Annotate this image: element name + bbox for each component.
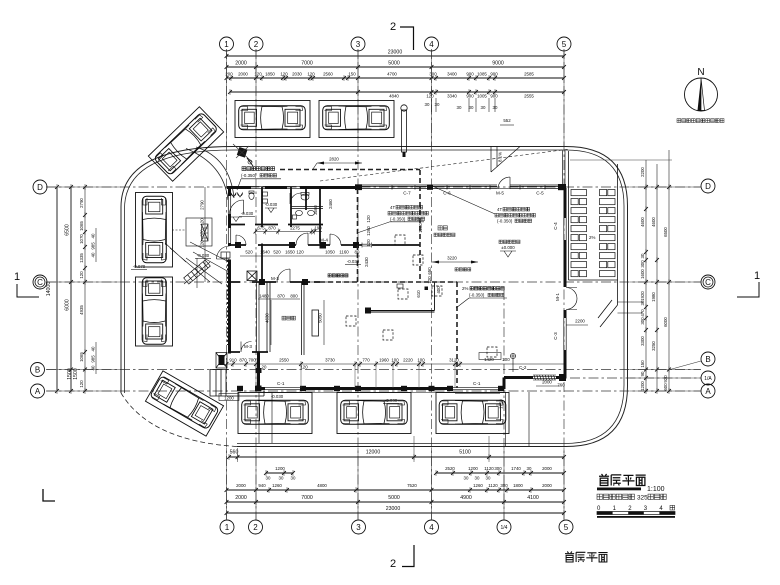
svg-text:2275: 2275 — [290, 226, 300, 231]
dim 1420 box — [479, 353, 510, 363]
toilet fixtures top-left — [231, 191, 309, 203]
north arrow — [677, 67, 724, 123]
svg-text:1640: 1640 — [260, 250, 270, 255]
annotation tiny drain — [328, 274, 348, 277]
svg-text:2000: 2000 — [542, 466, 552, 471]
svg-text:1335: 1335 — [79, 253, 84, 263]
grid line 1/4 vertical — [503, 290, 505, 520]
svg-text:3340: 3340 — [447, 94, 457, 99]
svg-text:870: 870 — [277, 294, 285, 299]
svg-text:1120: 1120 — [484, 466, 494, 471]
grid line C horizontal — [46, 281, 701, 283]
svg-text:3250: 3250 — [651, 341, 656, 351]
svg-text:120: 120 — [79, 380, 84, 388]
svg-text:±0.000: ±0.000 — [501, 245, 515, 250]
svg-text:120: 120 — [280, 72, 288, 77]
right dimension column outer — [663, 150, 671, 394]
entry side planter — [216, 353, 227, 369]
interior dim row verticals — [256, 364, 455, 388]
section marker 1 bottom-left corner — [43, 489, 55, 501]
svg-text:2460: 2460 — [328, 199, 333, 209]
svg-text:1:100: 1:100 — [647, 486, 665, 493]
interior partition x268 double — [267, 282, 270, 352]
svg-text:1070: 1070 — [79, 234, 84, 244]
svg-text:C-7: C-7 — [403, 191, 411, 196]
level mark -0.030 mid — [345, 259, 361, 265]
duct shaft rect — [312, 310, 319, 336]
svg-text:2555: 2555 — [524, 94, 534, 99]
svg-text:1480: 1480 — [259, 294, 269, 299]
door arc room x296 — [296, 233, 308, 245]
svg-text:120: 120 — [307, 72, 315, 77]
grid bubble C left — [33, 275, 47, 289]
svg-text:C-3: C-3 — [553, 332, 558, 340]
car top A — [239, 106, 306, 130]
left dimension column 6500 6000 1500 — [65, 184, 80, 394]
interior dim row y229 — [254, 226, 323, 235]
svg-text:910: 910 — [229, 358, 237, 363]
level mark -0.070 road — [131, 264, 147, 270]
svg-text:1960: 1960 — [379, 358, 389, 363]
svg-text:N: N — [697, 67, 704, 78]
level mark -0.030 left — [239, 211, 255, 217]
bottom dimension row D — [225, 495, 566, 505]
door arc room4 — [290, 193, 301, 204]
SE corner column block — [559, 374, 566, 381]
dim 2000 right stall — [536, 380, 560, 387]
svg-text:2000: 2000 — [542, 483, 552, 488]
bottom dimension extension lines — [227, 448, 565, 519]
svg-text:1085: 1085 — [477, 72, 487, 77]
interior wall vertical x262 — [261, 187, 263, 227]
svg-text:30: 30 — [640, 300, 645, 305]
svg-text:800: 800 — [290, 294, 298, 299]
parking stall left B — [136, 277, 173, 346]
svg-text:700: 700 — [248, 358, 256, 363]
svg-text:B: B — [35, 365, 40, 374]
svg-text:40: 40 — [91, 346, 96, 351]
svg-text:-0.030: -0.030 — [347, 259, 360, 264]
svg-text:23000: 23000 — [388, 50, 403, 56]
interior wall upper right y311 — [368, 282, 435, 312]
svg-text:600: 600 — [663, 383, 668, 391]
svg-text:760: 760 — [557, 383, 565, 388]
interior wall vertical x291 — [290, 187, 292, 227]
benchmark symbol — [510, 353, 515, 372]
svg-text:5000: 5000 — [388, 61, 400, 67]
svg-text:560: 560 — [230, 450, 239, 456]
svg-text:M-3: M-3 — [271, 276, 279, 281]
svg-text:900: 900 — [466, 94, 474, 99]
svg-text:3220: 3220 — [447, 256, 457, 261]
top band door sill M-5 — [497, 188, 510, 190]
svg-text:2: 2 — [390, 21, 396, 33]
car bottom C — [439, 400, 506, 424]
svg-text:2200: 2200 — [640, 167, 645, 177]
svg-text:2430: 2430 — [364, 257, 369, 267]
svg-text:870: 870 — [268, 226, 276, 231]
svg-text:2000: 2000 — [235, 61, 247, 67]
svg-text:120: 120 — [300, 365, 308, 370]
svg-text:1200: 1200 — [275, 466, 285, 471]
window C-3 right wall — [564, 318, 566, 350]
stair block with X — [247, 271, 257, 281]
flag pole detail — [401, 105, 407, 157]
svg-text:6500: 6500 — [65, 224, 71, 236]
svg-text:1200: 1200 — [468, 466, 478, 471]
parking stall top B — [319, 101, 394, 138]
svg-text:C-5: C-5 — [536, 191, 544, 196]
interior wall y245 — [230, 244, 421, 246]
svg-text:1260: 1260 — [272, 483, 282, 488]
svg-text:3660: 3660 — [313, 205, 318, 215]
top band window labels — [403, 191, 544, 196]
top dimension 30 pairs — [425, 98, 498, 112]
bottom dimension row 30s — [266, 476, 491, 481]
door top-left arc — [230, 200, 244, 214]
svg-text:4T: 4T — [390, 205, 395, 210]
svg-text:325: 325 — [637, 495, 648, 502]
building exterior wall left — [228, 186, 231, 354]
svg-text:4840: 4840 — [389, 94, 399, 99]
door arc corridor x236 — [236, 235, 246, 245]
svg-text:30: 30 — [435, 102, 440, 107]
svg-text:120: 120 — [426, 94, 434, 99]
ramp leader lines — [165, 243, 210, 288]
grid bubble B right leader — [670, 361, 701, 370]
car bottom A — [242, 400, 309, 424]
canopy dashed line above top wall — [280, 169, 420, 171]
svg-text:1260: 1260 — [473, 483, 483, 488]
svg-text:1650: 1650 — [285, 250, 295, 255]
svg-text:3300: 3300 — [640, 336, 645, 346]
svg-text:C-1: C-1 — [277, 381, 285, 386]
interior dim row y254 — [240, 250, 360, 257]
road outer boundary — [121, 147, 628, 447]
svg-text:C-4: C-4 — [553, 222, 558, 230]
entry porch — [210, 370, 264, 397]
svg-text:7000: 7000 — [301, 495, 313, 501]
svg-text:400: 400 — [436, 286, 441, 294]
interior wall vertical x320 — [319, 187, 321, 244]
svg-text:5: 5 — [564, 523, 569, 532]
svg-text:2: 2 — [253, 523, 258, 532]
canopy dashed line y282 — [320, 281, 457, 283]
right dimension column inner — [640, 160, 648, 394]
grid bubble 4 bottom — [425, 520, 439, 534]
svg-text:C-1: C-1 — [473, 381, 481, 386]
svg-text:650: 650 — [427, 267, 432, 275]
svg-text:520: 520 — [273, 250, 281, 255]
svg-text:2790: 2790 — [79, 198, 84, 208]
interior wall y245 column blocks — [235, 242, 359, 249]
level triangle shower room — [265, 208, 277, 213]
svg-text:1420: 1420 — [484, 357, 494, 362]
car rotated top-left — [154, 112, 219, 176]
svg-text:30: 30 — [464, 476, 469, 481]
svg-text:4600: 4600 — [651, 217, 656, 227]
dim 2200 interior right — [566, 319, 588, 326]
svg-text:120: 120 — [296, 250, 304, 255]
svg-text:920: 920 — [663, 375, 668, 383]
grid line 5 vertical — [563, 49, 565, 520]
grid line 1 vertical — [226, 49, 228, 520]
svg-text:20: 20 — [262, 365, 267, 370]
svg-text:552: 552 — [503, 118, 511, 123]
right dimension extension lines — [570, 160, 700, 391]
hatch walkway border — [569, 151, 618, 327]
title area text — [597, 494, 666, 501]
interior partition x306 toilet — [305, 187, 307, 210]
interior dim row y361 — [225, 358, 565, 370]
door entry porch arc — [241, 342, 252, 353]
svg-text:1: 1 — [224, 40, 229, 49]
walkway lines below porch — [259, 392, 272, 443]
left dimension column fine — [79, 184, 87, 394]
SW corner wall x258 — [257, 352, 260, 389]
svg-text:300: 300 — [429, 72, 437, 77]
interior partition x256 double — [257, 282, 260, 352]
svg-text:D: D — [37, 183, 43, 192]
hatch walkway bricks — [571, 190, 615, 277]
level mark 0.000 entry — [195, 253, 211, 259]
svg-text:2790: 2790 — [200, 200, 205, 210]
svg-text:1500: 1500 — [73, 368, 79, 380]
svg-text:5000: 5000 — [388, 495, 400, 501]
dim 1200 rotated car — [219, 394, 239, 401]
grid bubble 5 bottom — [559, 520, 573, 534]
grid bubble 1 top — [220, 37, 234, 51]
svg-text:300: 300 — [640, 317, 645, 325]
svg-text:1600: 1600 — [640, 269, 645, 279]
interior dim vertical 4630 — [265, 300, 272, 345]
interior dim 2820 — [313, 157, 362, 170]
svg-text:30: 30 — [475, 476, 480, 481]
svg-text:985: 985 — [91, 242, 96, 250]
interior wall y352 — [230, 351, 269, 353]
road bottom-left dashed curb — [121, 393, 237, 447]
svg-text:40: 40 — [91, 233, 96, 238]
svg-text:1740: 1740 — [511, 466, 521, 471]
svg-text:1200: 1200 — [640, 381, 645, 391]
interior wall vertical x262 lower — [261, 244, 263, 283]
ramp trapezoid top — [491, 147, 520, 173]
toilet sink counter — [291, 207, 323, 209]
svg-text:3400: 3400 — [447, 72, 457, 77]
svg-text:2550: 2550 — [279, 358, 289, 363]
window C-9 top wall — [251, 186, 265, 188]
grid line 1/A horizontal — [570, 377, 701, 379]
dim 1750 walkway — [499, 399, 504, 409]
svg-text:23000: 23000 — [386, 506, 401, 512]
svg-text:1050: 1050 — [325, 250, 335, 255]
gate barrier — [233, 144, 253, 166]
interior dim vertical 2430 — [364, 257, 369, 267]
svg-text:300: 300 — [640, 260, 645, 268]
svg-text:(-0.350): (-0.350) — [241, 173, 257, 178]
svg-text:B: B — [705, 355, 710, 364]
walkway extension lines right — [618, 302, 644, 313]
svg-text:5100: 5100 — [459, 450, 471, 456]
room label hall — [434, 226, 455, 237]
road inner boundary — [125, 150, 625, 444]
svg-text:2000: 2000 — [235, 495, 247, 501]
left dimension column 14000 — [46, 184, 59, 394]
svg-text:6000: 6000 — [65, 299, 71, 311]
car top B — [323, 106, 390, 130]
svg-text:80: 80 — [355, 250, 360, 255]
bottom dimension row 23000 — [225, 506, 566, 516]
grid bubble D right — [701, 179, 715, 193]
window marks interior wall 362-372 — [362, 243, 372, 248]
sight line diagonal — [320, 149, 570, 181]
window C-2 in step wall — [533, 375, 556, 380]
SE step wall vertical x504 — [503, 378, 506, 390]
svg-text:30: 30 — [527, 466, 532, 471]
interior dim row y297 — [258, 294, 300, 300]
section marker 1 left — [14, 271, 39, 297]
forecourt curve right — [350, 150, 566, 188]
svg-text:A: A — [35, 387, 41, 396]
svg-text:1065: 1065 — [79, 352, 84, 362]
interior wall toilets bottom y224 — [230, 224, 324, 226]
door M-5 arc — [498, 177, 510, 189]
car rotated bottom-left — [150, 376, 220, 430]
svg-text:(-0.350): (-0.350) — [390, 217, 406, 222]
grid line 3 vertical — [357, 49, 359, 520]
bottom dimension row B — [264, 466, 566, 476]
SE step wall y377.5 — [504, 376, 566, 379]
entry leader lines — [186, 242, 229, 284]
top band mullions — [392, 186, 545, 190]
svg-text:D: D — [705, 182, 711, 191]
interior wall y282 — [230, 281, 321, 283]
grid bubble 1/4 bottom — [497, 520, 511, 534]
grid bubble B right — [701, 352, 715, 366]
svg-text:C-2: C-2 — [519, 365, 527, 370]
svg-text:4900: 4900 — [460, 495, 472, 501]
annotation top-left rainpipe — [237, 167, 281, 190]
grid bubble D left — [33, 180, 47, 194]
svg-text:610: 610 — [416, 290, 421, 298]
parking stall bottom C — [436, 393, 509, 434]
svg-text:12000: 12000 — [366, 450, 381, 456]
svg-text:900: 900 — [466, 72, 474, 77]
svg-text:1: 1 — [14, 271, 20, 283]
svg-text:4800: 4800 — [317, 483, 327, 488]
building exterior wall bottom — [258, 387, 504, 390]
svg-text:2%: 2% — [589, 235, 595, 240]
svg-text:3730: 3730 — [325, 358, 335, 363]
svg-text:1/4: 1/4 — [501, 525, 508, 531]
svg-text:1260: 1260 — [366, 226, 371, 236]
svg-text:14000: 14000 — [46, 282, 52, 297]
interior dim vertical 1260 cluster — [366, 215, 423, 247]
title text first floor plan — [597, 474, 665, 493]
grid bubble 3 bottom — [352, 520, 366, 534]
grid bubble 2 bottom — [249, 520, 263, 534]
car bottom B — [341, 400, 408, 424]
grid line D horizontal — [46, 186, 701, 188]
top dimension extension lines — [227, 50, 565, 146]
svg-text:1920: 1920 — [640, 291, 645, 301]
svg-text:470: 470 — [640, 309, 645, 317]
top dimension row 2000 7000 5000 9000 — [225, 61, 566, 71]
svg-text:M-1: M-1 — [555, 293, 560, 301]
svg-text:30: 30 — [425, 102, 430, 107]
grid line 2 vertical — [255, 49, 257, 520]
building exterior wall top-left block — [227, 186, 362, 189]
bottom wall outer face line — [258, 392, 504, 394]
svg-text:5: 5 — [562, 40, 567, 49]
svg-text:8.1%: 8.1% — [498, 152, 503, 162]
svg-text:-0.030: -0.030 — [271, 394, 284, 399]
side exit door arc left wall — [217, 246, 230, 259]
svg-text:870: 870 — [239, 358, 247, 363]
interior wall y282 blocks — [259, 279, 308, 285]
svg-text:6000: 6000 — [663, 317, 668, 327]
svg-text:30: 30 — [457, 105, 462, 110]
bottom row A extension verticals — [238, 436, 490, 462]
accessible ramp rotated — [184, 260, 211, 284]
level triangle left room — [230, 217, 242, 222]
grid bubble 4 top — [425, 37, 439, 51]
top dimension row second fine — [228, 89, 566, 99]
window C-10 top wall — [287, 186, 300, 188]
svg-text:120: 120 — [366, 239, 371, 247]
grid line A horizontal — [46, 390, 701, 392]
svg-text:2820: 2820 — [329, 157, 339, 162]
svg-text:30: 30 — [266, 476, 271, 481]
svg-text:520: 520 — [245, 250, 253, 255]
top window band hall — [362, 185, 563, 189]
car left A — [142, 196, 166, 263]
SE step line below C-1 — [455, 393, 500, 395]
bottom center title — [565, 552, 608, 563]
svg-text:4T: 4T — [497, 207, 502, 212]
svg-text:M-5: M-5 — [496, 191, 504, 196]
svg-text:120: 120 — [79, 271, 84, 279]
left wall finish dashes — [227, 260, 229, 345]
svg-text:985: 985 — [91, 355, 96, 363]
scale bar — [597, 505, 675, 517]
svg-text:2000: 2000 — [236, 483, 246, 488]
door M-3 arc at y282 — [277, 269, 290, 282]
svg-text:120: 120 — [366, 215, 371, 223]
svg-text:-0.030: -0.030 — [241, 211, 254, 216]
svg-text:770: 770 — [362, 358, 370, 363]
section marker 1 right — [737, 270, 760, 297]
svg-text:4700: 4700 — [387, 72, 397, 77]
svg-text:9000: 9000 — [492, 61, 504, 67]
svg-text:1: 1 — [754, 270, 760, 282]
driveway entry curve — [186, 147, 234, 200]
svg-text:150: 150 — [348, 72, 356, 77]
svg-text:2000: 2000 — [238, 72, 248, 77]
entry step rect — [221, 252, 230, 258]
parking stall rotated top-left — [148, 107, 223, 181]
window C-4 right wall — [564, 218, 566, 240]
svg-text:C: C — [37, 278, 43, 287]
svg-text:2%: 2% — [462, 286, 468, 291]
svg-text:2520: 2520 — [445, 466, 455, 471]
bottom dimension row C — [225, 483, 566, 493]
top dimension row 23000 — [225, 50, 566, 60]
building exterior wall right — [564, 188, 567, 379]
grid bubble 2 top — [249, 37, 263, 51]
left dimension column 40 985 40 — [91, 228, 97, 374]
canopy dashed line x357 — [357, 189, 359, 282]
